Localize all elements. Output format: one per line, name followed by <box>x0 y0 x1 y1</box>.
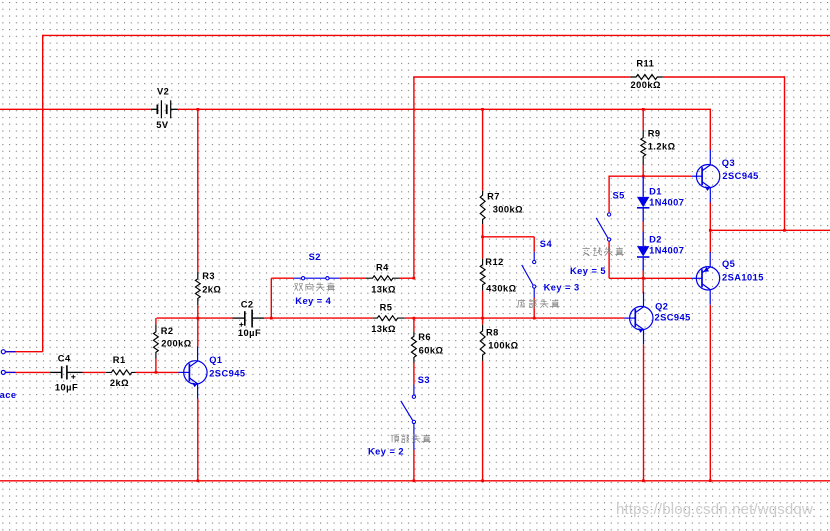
wire input terminal 2 to C4 <box>5 371 50 373</box>
junction ground R8 <box>481 479 484 482</box>
wire S5 bottom to Q5 base corner <box>609 242 691 279</box>
label R6 value <box>419 345 444 355</box>
svg-text:V2: V2 <box>157 87 169 97</box>
wire R2 corner <box>155 318 157 324</box>
input terminal node 1 <box>1 350 15 354</box>
junction output node <box>709 229 712 232</box>
svg-text:Q3: Q3 <box>722 158 735 168</box>
svg-text:2kΩ: 2kΩ <box>110 378 129 388</box>
svg-text:S3: S3 <box>418 375 430 385</box>
resistor R8 <box>480 325 485 361</box>
junction R4-column node <box>413 277 416 280</box>
label R7 <box>487 192 500 202</box>
diode D1 <box>637 176 649 221</box>
transistor Q1 <box>178 346 207 399</box>
label R2 value <box>161 339 191 349</box>
wire Q3 base <box>609 175 691 177</box>
label R9 value <box>648 142 676 152</box>
label R8 value <box>488 340 518 350</box>
wire R7 column top <box>482 109 484 190</box>
label R1 value <box>110 378 129 388</box>
svg-text:R2: R2 <box>161 326 174 336</box>
svg-text:2SC945: 2SC945 <box>209 369 245 379</box>
wire C4 to R1 <box>83 371 106 373</box>
junction R9 top node <box>642 108 645 111</box>
wire S2 to R4 <box>339 277 366 279</box>
svg-text:Q1: Q1 <box>209 355 222 365</box>
wire R3 to Q1 collector <box>197 305 199 346</box>
svg-text:Q5: Q5 <box>722 259 735 269</box>
switch S3 <box>401 385 416 451</box>
wire top bus <box>43 34 830 36</box>
junction D2-Q5 base node <box>642 277 645 280</box>
svg-text:2SA1015: 2SA1015 <box>722 273 764 283</box>
junction ground Q5 collector <box>709 479 712 482</box>
label R11 <box>636 58 654 68</box>
label C4 value <box>55 382 78 392</box>
wire upper branch corner <box>271 278 293 318</box>
wire R7 to R12 <box>482 224 484 258</box>
resistor R6 <box>411 332 416 363</box>
svg-text:Key = 4: Key = 4 <box>295 296 331 306</box>
label C2 <box>241 300 254 310</box>
label R9 <box>648 128 661 138</box>
svg-text:200kΩ: 200kΩ <box>631 80 661 90</box>
wire S4 branch <box>483 237 535 252</box>
label S5 <box>613 190 625 200</box>
label D2 type <box>649 246 684 256</box>
label S3 <box>418 375 430 385</box>
wire S3 bottom to ground bus <box>413 450 415 481</box>
junction C2 branch node <box>270 317 273 320</box>
transistor Q2 <box>624 292 653 345</box>
label S3 distortion text <box>391 434 431 443</box>
label S2 distortion text <box>294 283 335 292</box>
wire R2 bottom to input node <box>155 359 157 373</box>
label S4 <box>540 239 553 249</box>
svg-text:D2: D2 <box>649 235 662 245</box>
switch S4 <box>522 252 536 298</box>
label R5 <box>380 302 393 312</box>
junction S4 top node <box>481 236 484 239</box>
svg-text:S2: S2 <box>309 252 321 262</box>
resistor R4 <box>365 276 400 281</box>
svg-text:Key = 5: Key = 5 <box>570 266 606 276</box>
input terminal node 2 <box>1 370 15 374</box>
label D1 type <box>649 197 684 207</box>
switch S2 <box>293 277 339 280</box>
label R8 <box>486 327 499 337</box>
label C2 value <box>238 328 261 338</box>
switch S5 <box>596 212 611 241</box>
label Q2 <box>655 301 668 311</box>
wire R12 bottom <box>482 291 484 319</box>
svg-text:100kΩ: 100kΩ <box>488 340 518 350</box>
label R1 <box>113 355 126 365</box>
label Q3 <box>722 158 735 168</box>
capacitor C2 <box>233 310 265 328</box>
wire battery to Q3 column <box>178 108 710 110</box>
wire Q1 emitter to ground bus <box>197 399 199 481</box>
junction R2 input node <box>155 371 158 374</box>
resistor R5 <box>373 316 405 321</box>
svg-text:R4: R4 <box>376 262 389 272</box>
wire D2 to Q5 base node to Q2 collector <box>642 271 644 294</box>
wire Q3 collector top <box>709 109 711 150</box>
svg-text:R6: R6 <box>418 332 431 342</box>
watermark <box>616 501 813 518</box>
wire R9 top <box>642 109 644 130</box>
svg-text:13kΩ: 13kΩ <box>371 285 396 295</box>
svg-text:R11: R11 <box>636 58 654 68</box>
label Q2 type <box>655 313 691 323</box>
label input key (clipped Space) <box>0 390 16 400</box>
label R4 <box>376 262 389 272</box>
svg-text:R3: R3 <box>202 271 215 281</box>
svg-text:430kΩ: 430kΩ <box>486 283 516 293</box>
svg-text:1N4007: 1N4007 <box>649 197 684 207</box>
svg-text:2kΩ: 2kΩ <box>202 284 221 294</box>
svg-text:200kΩ: 200kΩ <box>161 339 191 349</box>
wire R6 to S3 <box>413 363 415 385</box>
svg-text:D1: D1 <box>649 186 662 196</box>
svg-text:Space: Space <box>0 390 16 400</box>
label R12 value <box>486 283 516 293</box>
svg-text:5V: 5V <box>156 120 169 130</box>
svg-text:Key = 2: Key = 2 <box>368 447 404 457</box>
svg-text:S4: S4 <box>540 239 553 249</box>
label Q1 <box>209 355 222 365</box>
wire mid bus (base line of Q2) <box>157 317 625 319</box>
wire Vcc from left edge to battery <box>0 108 151 110</box>
wire ground bus <box>0 480 830 482</box>
transistor Q3 <box>691 150 720 203</box>
wire R3 column top <box>197 109 199 271</box>
svg-text:13kΩ: 13kΩ <box>371 324 396 334</box>
wire R11 branch corner <box>413 77 630 278</box>
label R11 value <box>631 80 661 90</box>
label R7 value <box>493 204 523 214</box>
wire output node to right edge <box>710 229 830 231</box>
junction right vertical output node <box>783 229 786 232</box>
label R3 value <box>202 284 221 294</box>
junction R9-D1-Q3 base node <box>642 175 645 178</box>
wire input terminal 1 <box>5 351 43 353</box>
label S4 key <box>544 282 580 292</box>
junction ground Q2 emitter <box>642 479 645 482</box>
wire R9 bottom to Q3 base <box>642 165 644 176</box>
diode D2 <box>637 232 649 271</box>
capacitor C4 <box>50 365 82 379</box>
svg-text:10µF: 10µF <box>55 382 78 392</box>
svg-text:C2: C2 <box>241 300 254 310</box>
svg-text:Q2: Q2 <box>655 301 668 311</box>
label D1 <box>649 186 662 196</box>
wire R1 to Q1 base <box>136 371 179 373</box>
junction R12-R8 node <box>481 317 484 320</box>
label R2 <box>161 326 174 336</box>
svg-text:R5: R5 <box>380 302 393 312</box>
svg-text:300kΩ: 300kΩ <box>493 204 523 214</box>
wire Q3 emitter to output node <box>709 203 711 253</box>
wire R4 to column <box>400 277 414 279</box>
label C4 <box>58 353 71 363</box>
junction S4 bottom node <box>533 317 536 320</box>
svg-text:60kΩ: 60kΩ <box>419 345 444 355</box>
resistor R12 <box>480 259 485 291</box>
label R12 <box>485 257 503 267</box>
junction R7 top node <box>481 108 484 111</box>
wire S5 top <box>608 176 610 213</box>
wire R6 column top <box>413 318 415 332</box>
svg-text:1N4007: 1N4007 <box>649 246 684 256</box>
wire Q2 emitter to ground bus <box>643 345 645 481</box>
svg-text:R8: R8 <box>486 327 499 337</box>
transistor Q5 (PNP) <box>691 252 720 305</box>
svg-text:R1: R1 <box>113 355 126 365</box>
junction ground S3 <box>413 479 416 482</box>
svg-text:2SC945: 2SC945 <box>722 171 758 181</box>
svg-text:2SC945: 2SC945 <box>655 313 691 323</box>
wire left vertical <box>42 35 44 352</box>
svg-text:10µF: 10µF <box>238 328 261 338</box>
label Q5 <box>722 259 735 269</box>
label S4 distortion text <box>518 299 560 308</box>
label 5V value <box>156 120 169 130</box>
junction R5-R6 node <box>413 317 416 320</box>
svg-text:R12: R12 <box>485 257 503 267</box>
svg-text:Key = 3: Key = 3 <box>544 282 580 292</box>
svg-text:R9: R9 <box>648 128 661 138</box>
label S2 <box>309 252 321 262</box>
label S5 key <box>570 266 606 276</box>
label S3 key <box>368 447 404 457</box>
junction R3 top node <box>197 108 200 111</box>
label S5 distortion text <box>583 247 624 256</box>
svg-text:C4: C4 <box>58 353 71 363</box>
resistor R1 <box>106 370 136 375</box>
resistor R9 <box>641 130 646 165</box>
label Q3 type <box>722 171 758 181</box>
wire R8 top <box>482 318 484 325</box>
resistor R3 <box>195 272 200 306</box>
label D2 <box>649 235 662 245</box>
label Q1 type <box>209 369 245 379</box>
label V2 <box>157 87 169 97</box>
wire S4 bottom <box>533 298 535 319</box>
label Q5 type <box>722 273 764 283</box>
wire D1-D2 node <box>642 222 644 232</box>
junction ground Q1 emitter <box>197 479 200 482</box>
svg-text:S5: S5 <box>613 190 625 200</box>
resistor R7 <box>480 191 485 225</box>
wire Q5 collector to ground bus <box>709 305 711 481</box>
label R3 <box>202 271 215 281</box>
svg-text:R7: R7 <box>487 192 500 202</box>
junction R3 column mid bus <box>197 317 200 320</box>
label R4 value <box>371 285 396 295</box>
resistor R2 <box>154 324 159 358</box>
wire R11 right to corner <box>663 76 785 78</box>
wire right vertical from R11 <box>784 76 786 230</box>
label S2 key <box>295 296 331 306</box>
label R6 <box>418 332 431 342</box>
label R5 value <box>371 324 396 334</box>
battery V2 <box>151 100 178 118</box>
svg-text:1.2kΩ: 1.2kΩ <box>648 142 676 152</box>
svg-text:https://blog.csdn.net/wqsdqw: https://blog.csdn.net/wqsdqw <box>616 501 813 518</box>
resistor R11 <box>630 75 662 80</box>
wire R8 bottom to ground bus <box>482 361 484 481</box>
